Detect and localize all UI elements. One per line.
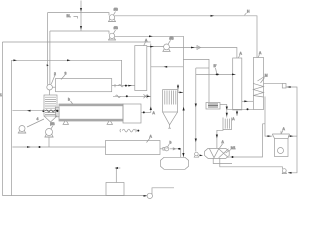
- svg-text:M1: M1: [231, 146, 236, 150]
- wire line into column C1 y74.4: [196, 73, 236, 75]
- wire pump P1 outlet to column C2: [115, 16, 257, 58]
- node arrow into drum: [182, 153, 184, 157]
- node up arrow on x183: [183, 107, 185, 111]
- wire mixer to box B1: [52, 86, 55, 88]
- pump P3 bottom left: [18, 119, 44, 133]
- svg-text:b: b: [68, 98, 70, 102]
- svg-text:A: A: [240, 52, 243, 56]
- wire vertical x226.8 into vent filter: [226, 104, 228, 117]
- compressor C3: [147, 188, 174, 199]
- svg-text:M: M: [265, 74, 268, 78]
- node label M with leaders: [258, 74, 268, 84]
- pump P5 bottom right: [282, 169, 287, 174]
- svg-text:A: A: [222, 140, 225, 144]
- column C1 drain stub: [236, 110, 238, 116]
- kiln discharge row y112.4: [141, 106, 156, 115]
- svg-text:A: A: [153, 111, 156, 115]
- wire column C2 down to tank: [265, 97, 272, 137]
- reactor box B1: [56, 79, 112, 92]
- wire column B drain to exchanger right: [229, 124, 265, 157]
- wire bottoms line y109.3: [227, 108, 254, 110]
- wire bottom feed y147: [12, 146, 105, 148]
- wire vertical x47.5: [47, 13, 49, 85]
- wire top line y12.6 to pump P1: [48, 13, 110, 16]
- wire small box to vent filter: [220, 103, 227, 105]
- svg-text:#B: #B: [114, 26, 119, 30]
- wire down to pump P6: [195, 68, 197, 152]
- connection row C y130.6: [120, 129, 139, 132]
- svg-text:A: A: [232, 117, 235, 121]
- svg-text:B': B': [214, 64, 217, 68]
- wire exhaust line y66.8: [151, 66, 183, 68]
- svg-text:A: A: [259, 51, 262, 55]
- wire baghouse inlet: [178, 84, 183, 92]
- svg-text:A: A: [283, 127, 286, 131]
- vent filter box: [223, 117, 235, 130]
- wire line y31 to pump P2: [50, 31, 109, 34]
- baghouse filter F1: [163, 90, 178, 129]
- heat exchanger E1: [205, 140, 236, 158]
- column C1: [233, 58, 242, 110]
- rotary valve G1: [160, 147, 169, 151]
- tank scrubber S1: [272, 127, 289, 157]
- valve on blower outlet: [197, 46, 201, 50]
- wire into column C2 right y83.3: [264, 82, 283, 84]
- node valve dot on x47.5: [47, 64, 49, 66]
- wire BL arrow 1: [80, 8, 82, 12]
- svg-text:#B: #B: [114, 8, 119, 12]
- wire bottom long line: [2, 195, 146, 197]
- rotary kiln K2: [55, 98, 141, 125]
- wire long feed line y42: [2, 41, 150, 43]
- svg-text:H: H: [247, 9, 250, 13]
- connection row B y96.3: [113, 94, 151, 98]
- svg-text:2: 2: [54, 72, 56, 76]
- wire vessel to left border y110.7: [12, 110, 44, 112]
- wire exchanger bottom outlet to pump P5: [220, 158, 283, 169]
- pump P6: [194, 152, 203, 157]
- node arrow before compressor: [144, 195, 148, 197]
- wire vertical x150.8: [150, 44, 152, 113]
- wire tank right loop: [288, 136, 297, 173]
- wire left border outer vertical: [1, 42, 3, 196]
- wire vertical x49.9: [49, 31, 51, 85]
- svg-text:b: b: [170, 141, 172, 145]
- small box furnace FB: [206, 103, 220, 110]
- wire blower outlet to column C1 top: [169, 48, 237, 59]
- pump P1: [108, 8, 119, 22]
- drum D1: [161, 157, 189, 169]
- wire valve to drum: [170, 149, 181, 158]
- blower K1: [162, 36, 174, 51]
- mixer M1: [47, 84, 53, 90]
- wire line y60.3 with arrows: [11, 60, 121, 85]
- wire BL feed vertical x81: [80, 1, 82, 32]
- pump P4 centrifuge: [44, 122, 55, 147]
- wire pump P2 outlet down to drum: [115, 36, 184, 157]
- svg-text:BL: BL: [67, 14, 71, 18]
- svg-text:1: 1: [0, 93, 2, 97]
- connection row A y85.6: [112, 84, 135, 87]
- small box B6 bottom center: [106, 167, 124, 196]
- wire column C1 to C2 y101.3: [242, 100, 254, 102]
- svg-text:4: 4: [37, 117, 39, 121]
- node arrow on P1 outlet: [211, 15, 215, 17]
- wire exchanger outlet stub y163.5: [213, 158, 232, 163]
- pump P2: [108, 26, 119, 40]
- wire bypass ladder to small box: [183, 59, 209, 102]
- column C2 with coil: [253, 51, 263, 110]
- wire left border inner vertical: [10, 60, 12, 195]
- vessel V1 with cone: [42, 95, 58, 126]
- svg-text:#B: #B: [170, 36, 175, 40]
- column B2 scrubber: [135, 46, 147, 91]
- wire vent filter drain to exchanger: [217, 130, 223, 149]
- steam trap on C2 feed: [282, 84, 297, 137]
- node arrow on P2 outlet: [149, 35, 153, 37]
- wire column B2 to blower: [147, 46, 164, 48]
- svg-text:#B: #B: [51, 122, 56, 126]
- dryer box B5: [106, 141, 161, 155]
- wire mixer down to vessel V1: [49, 90, 51, 95]
- wire BL arrow 2: [80, 26, 82, 30]
